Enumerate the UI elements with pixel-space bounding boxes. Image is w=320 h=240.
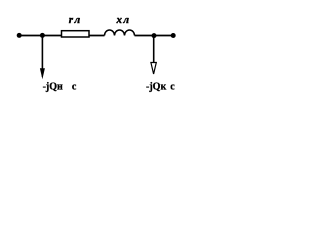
wire: left shunt branch: [41, 36, 43, 71]
arrow: left load arrowhead (filled): [40, 68, 45, 79]
svg-text:-jQнc: -jQнc: [43, 82, 77, 93]
svg-text:хл: хл: [116, 14, 131, 26]
arrow: right load arrowhead (hollow): [151, 63, 156, 75]
resistor r_l body: [62, 31, 90, 37]
node: right terminal dot: [171, 33, 176, 38]
wire: right shunt branch: [153, 36, 155, 64]
svg-text:rл: rл: [69, 14, 82, 26]
svg-text:-jQкc: -jQкc: [146, 82, 175, 93]
node: right junction dot: [152, 33, 157, 38]
wire: top horizontal bus: [18, 35, 174, 37]
inductor x_l coil: [105, 30, 135, 36]
node: left junction dot: [40, 33, 45, 38]
node: left terminal dot: [17, 33, 22, 38]
